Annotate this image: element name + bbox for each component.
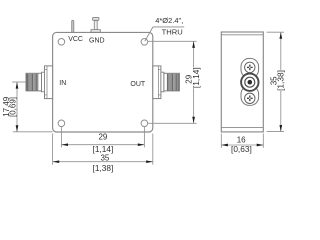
step (42, 72, 45, 92)
svg-text:[1,38]: [1,38] (276, 70, 286, 91)
svg-text:VCC: VCC (68, 36, 83, 43)
svg-text:IN: IN (59, 80, 66, 87)
side view coax connector circles (241, 74, 258, 91)
dimension 29 [1.14] horizontal (front bottom) (61, 127, 144, 154)
step (161, 72, 164, 92)
threads (167, 74, 178, 91)
hole callout leader (145, 27, 184, 41)
svg-text:29: 29 (98, 132, 107, 141)
flange (45, 66, 53, 99)
svg-text:THRU: THRU (162, 27, 183, 36)
side view body (221, 32, 263, 132)
side view screw upper (245, 62, 255, 72)
svg-text:35: 35 (100, 154, 109, 163)
side view screw lower (245, 93, 255, 103)
side view connector flange lower lobe (241, 86, 259, 106)
svg-text:[0,69]: [0,69] (9, 97, 18, 117)
side view connector flange upper lobe (241, 58, 259, 78)
module body front view (53, 32, 153, 132)
dimension 29 [1.14] vertical (front right) (148, 41, 201, 123)
dimension 17.49 [0.69] vertical (front left) (2, 82, 52, 132)
barrel (26, 73, 42, 91)
barrel (164, 73, 180, 91)
IN connector SMA (left) (26, 66, 53, 99)
VCC feedthrough pin (72, 20, 74, 32)
mounting hole bottom-left (58, 120, 65, 127)
svg-text:GND: GND (89, 37, 105, 44)
dimension 16 [0.63] horizontal (side bottom) (221, 134, 263, 155)
svg-text:[1,14]: [1,14] (93, 144, 114, 154)
flange (153, 66, 161, 99)
mounting hole top-right (141, 39, 148, 46)
svg-text:OUT: OUT (130, 81, 146, 88)
dimension 35 [1.38] horizontal (front bottom) (53, 134, 153, 173)
mounting hole top-left (58, 39, 65, 46)
OUT connector SMA (right) (153, 66, 180, 99)
mounting hole bottom-right (141, 120, 148, 127)
svg-text:4*Ø2.4",: 4*Ø2.4", (155, 16, 183, 25)
svg-text:[1,38]: [1,38] (93, 163, 114, 173)
threads (27, 74, 38, 91)
GND terminal (91, 17, 100, 32)
svg-text:[0,63]: [0,63] (231, 144, 252, 154)
dimension 35 [1.38] vertical (side right) (267, 32, 286, 131)
svg-text:[1,14]: [1,14] (191, 67, 201, 88)
